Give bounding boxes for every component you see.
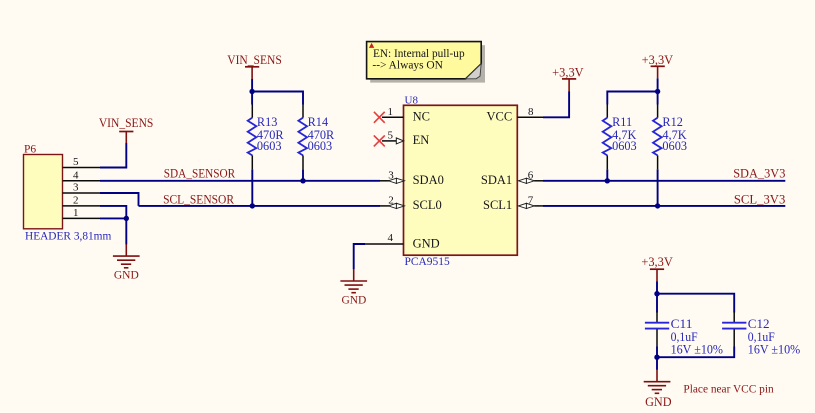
- P6 pin 1: [63, 207, 101, 219]
- U8 pin 1 NC: [382, 106, 430, 124]
- wire VIN_SENS top to junction: [251, 79, 253, 105]
- ground GND caps: [644, 370, 672, 410]
- U8 designator: [405, 94, 419, 106]
- power VIN_SENS left: [99, 116, 154, 143]
- svg-text:GND: GND: [341, 295, 366, 307]
- wire +3,3V to R12 top: [657, 78, 659, 104]
- svg-text:7: 7: [528, 195, 534, 207]
- P6 designator: [24, 144, 36, 156]
- resistor R12: [653, 104, 687, 169]
- svg-text:3: 3: [73, 182, 79, 194]
- resistor R13: [248, 104, 285, 169]
- U8 pin 4 GND: [365, 232, 440, 251]
- U8 part number PCA9515: [405, 256, 451, 268]
- svg-text:2: 2: [388, 195, 394, 207]
- resistor R14: [298, 104, 335, 169]
- junction R13 SCL: [250, 203, 255, 208]
- svg-text:4: 4: [73, 170, 79, 182]
- U8 pin 3 SDA0: [380, 169, 444, 187]
- wire +3,3V to C11 top: [656, 281, 658, 312]
- wire C11 bottom to junction: [656, 347, 658, 370]
- P6 pin 5: [63, 156, 101, 168]
- junction R12 SCL1: [655, 203, 660, 208]
- svg-text:--> Always ON: --> Always ON: [372, 58, 443, 72]
- no-ERC X pin 1: [374, 112, 385, 123]
- svg-text:SCL0: SCL0: [413, 198, 442, 212]
- P6 pin 4: [63, 170, 101, 182]
- wire pin5 to VIN_SENS: [100, 143, 126, 168]
- net label SCL_SENSOR: [163, 193, 234, 207]
- svg-text:+3,3V: +3,3V: [552, 65, 583, 79]
- wire R11 bottom to SDA1: [606, 169, 608, 181]
- svg-text:0603: 0603: [612, 139, 637, 153]
- wire SDA_SENSOR: [100, 180, 380, 182]
- svg-text:GND: GND: [114, 270, 139, 282]
- svg-text:SCL_3V3: SCL_3V3: [734, 193, 785, 207]
- svg-text:Place near VCC pin: Place near VCC pin: [683, 382, 773, 396]
- svg-text:GND: GND: [645, 395, 672, 409]
- wire pin2 down to pin1: [100, 206, 126, 219]
- svg-text:0603: 0603: [662, 139, 687, 153]
- svg-text:NC: NC: [413, 110, 430, 124]
- wire junction to R14 top: [252, 92, 303, 105]
- wire pin1 to GND: [100, 218, 126, 244]
- svg-text:3: 3: [388, 169, 394, 181]
- svg-text:0603: 0603: [308, 139, 333, 153]
- svg-text:P6: P6: [24, 144, 36, 156]
- U8 pin 8 VCC: [486, 106, 543, 124]
- junction +3,3V R12: [655, 89, 660, 94]
- junction R11 SDA1: [605, 178, 610, 183]
- svg-text:VIN_SENS: VIN_SENS: [99, 116, 154, 130]
- svg-text:16V ±10%: 16V ±10%: [748, 342, 801, 356]
- U8 pin 6 SDA1: [481, 169, 543, 187]
- wire VCC to +3,3V: [543, 91, 569, 117]
- svg-text:U8: U8: [405, 94, 419, 106]
- svg-text:5: 5: [388, 129, 394, 141]
- P6 pin 2: [63, 195, 101, 207]
- svg-text:SDA0: SDA0: [413, 173, 444, 187]
- svg-text:16V ±10%: 16V ±10%: [671, 342, 724, 356]
- net label SDA_3V3: [733, 166, 785, 180]
- P6 pin 3: [63, 182, 101, 194]
- text Place near VCC pin: [683, 382, 773, 396]
- junction header pin1/pin2: [124, 216, 129, 221]
- svg-text:PCA9515: PCA9515: [405, 256, 451, 268]
- svg-text:SDA_SENSOR: SDA_SENSOR: [164, 166, 236, 180]
- wire pin3 step to SCL: [100, 193, 139, 206]
- wire C12 bottom to junction: [657, 347, 734, 358]
- svg-text:SCL1: SCL1: [483, 198, 512, 212]
- svg-text:SDA1: SDA1: [481, 173, 512, 187]
- svg-text:1: 1: [388, 106, 394, 118]
- svg-text:4: 4: [388, 232, 394, 244]
- svg-text:1: 1: [73, 207, 79, 219]
- svg-text:8: 8: [528, 106, 534, 118]
- wire R13 bottom to SCL: [251, 169, 253, 206]
- ground GND header: [113, 244, 140, 282]
- svg-text:HEADER 3,81mm: HEADER 3,81mm: [25, 231, 111, 243]
- note EN internal pull-up: [367, 42, 485, 83]
- power VIN_SENS top: [227, 53, 282, 79]
- no-ERC X pin 5: [374, 135, 385, 146]
- svg-text:EN: EN: [413, 133, 430, 147]
- svg-text:5: 5: [73, 156, 79, 168]
- wire junction to R11 top: [607, 92, 657, 105]
- svg-text:VIN_SENS: VIN_SENS: [227, 53, 282, 67]
- svg-text:SCL_SENSOR: SCL_SENSOR: [163, 193, 234, 207]
- power +3,3V at R11 R12: [642, 53, 673, 78]
- power +3,3V at C11 C12: [641, 255, 672, 281]
- svg-text:+3,3V: +3,3V: [642, 53, 673, 67]
- capacitor C11: [645, 312, 724, 357]
- connector P6 body: [24, 155, 63, 229]
- svg-text:0603: 0603: [257, 139, 282, 153]
- wire R14 bottom to SDA: [302, 169, 304, 181]
- wire U8 GND pin to ground: [354, 244, 365, 269]
- wire SDA1 to SDA_3V3: [543, 180, 785, 182]
- U8 pin 2 SCL0: [380, 195, 442, 213]
- svg-text:+3,3V: +3,3V: [641, 255, 672, 269]
- wire SCL_SENSOR: [139, 205, 381, 207]
- ground GND U8: [340, 269, 367, 307]
- junction VIN_SENS top: [249, 89, 254, 94]
- wire SCL1 to SCL_3V3: [543, 205, 785, 207]
- net label SDA_SENSOR: [164, 166, 236, 180]
- U8 pin 5 EN: [382, 129, 429, 147]
- wire R12 bottom to SCL1: [657, 169, 659, 206]
- wire junction to C12 top: [657, 294, 734, 313]
- capacitor C12: [722, 312, 801, 357]
- power +3,3V at VCC: [552, 65, 583, 91]
- junction caps bottom: [654, 355, 659, 360]
- svg-text:VCC: VCC: [486, 110, 512, 124]
- svg-text:6: 6: [528, 169, 534, 181]
- P6 value label HEADER 3,81mm: [25, 231, 111, 243]
- junction R14 SDA: [300, 178, 305, 183]
- IC U8 body: [404, 105, 518, 255]
- svg-text:GND: GND: [413, 237, 440, 251]
- net label SCL_3V3: [734, 193, 785, 207]
- svg-text:SDA_3V3: SDA_3V3: [733, 166, 785, 180]
- resistor R11: [603, 104, 637, 169]
- svg-text:2: 2: [73, 195, 79, 207]
- U8 pin 7 SCL1: [483, 195, 543, 213]
- junction caps top: [654, 291, 659, 296]
